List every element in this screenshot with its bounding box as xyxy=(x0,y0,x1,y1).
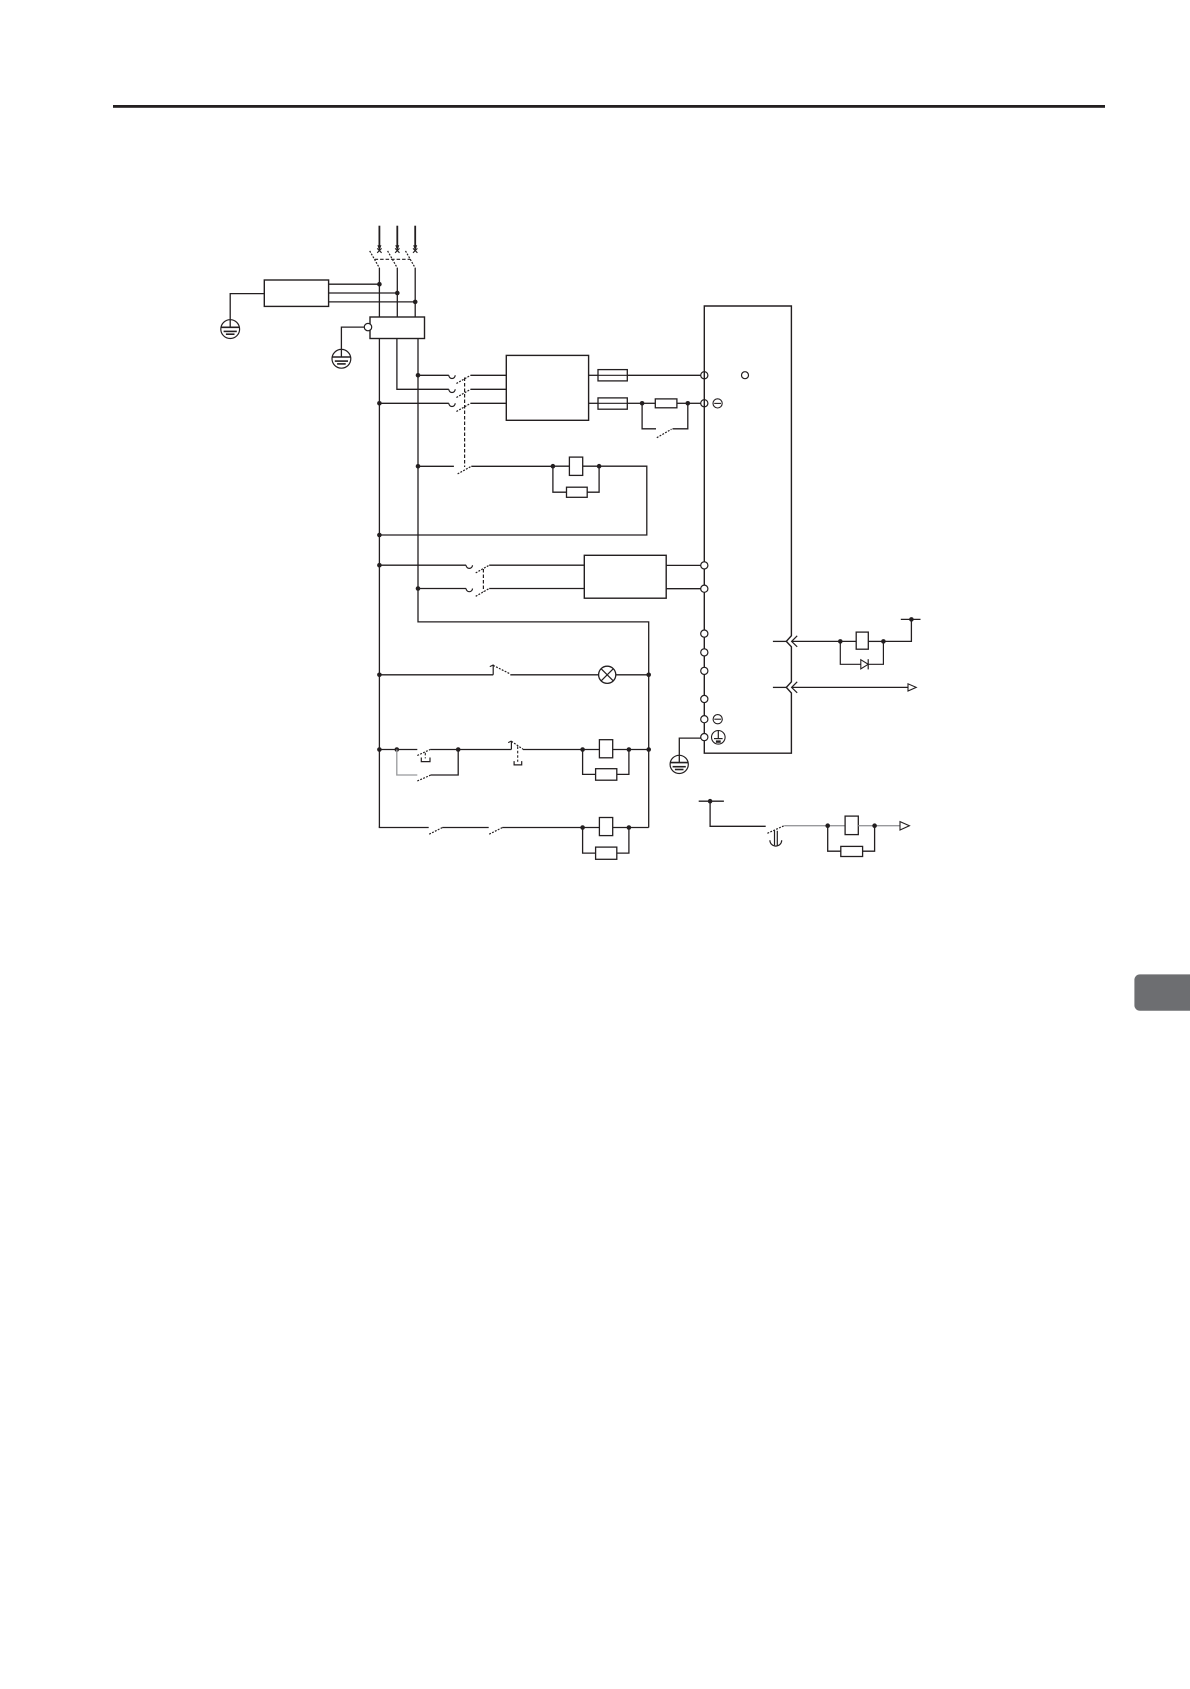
surge absorber box xyxy=(370,317,425,339)
fuse FU1 xyxy=(589,370,628,381)
relay 3Ry coil xyxy=(583,818,629,836)
NC relay contact (lamp line) xyxy=(490,665,510,675)
wire filter output S xyxy=(329,292,398,294)
node L3 brake feed xyxy=(416,586,421,591)
contactor 1KM pole 3 contact xyxy=(449,403,507,411)
wire L2 breaker to surge absorber xyxy=(396,268,398,317)
node coil2 left xyxy=(580,747,585,752)
wire FU2 to node xyxy=(627,402,642,404)
node L3-aux contact xyxy=(416,464,421,469)
ground (noise filter) xyxy=(221,320,240,339)
node regen right xyxy=(686,401,691,406)
NO contact A (rung2) xyxy=(429,828,489,835)
wire brake feed 2 xyxy=(418,588,466,590)
wire ground terminal lead xyxy=(679,738,700,762)
terminal CN pin 1 xyxy=(701,630,708,637)
open arrow (brake signal) xyxy=(900,822,909,830)
node branch right xyxy=(456,747,461,752)
flywheel diode across relay xyxy=(840,641,883,669)
wire pole1 feed xyxy=(418,374,449,376)
wire lamp to L3 line xyxy=(616,674,649,676)
wire L3 control line (right vertical, steps right) xyxy=(418,339,649,828)
terminal ground terminal xyxy=(701,734,708,741)
terminal brake 2 xyxy=(701,585,708,592)
wire filter output R xyxy=(329,283,380,285)
node coil2 right xyxy=(627,747,632,752)
noise filter box xyxy=(264,280,328,306)
surge suppressor across 1Ry coil xyxy=(553,466,599,497)
relay 2Ry coil xyxy=(583,740,629,758)
surge absorber case terminal xyxy=(364,323,371,330)
wire aux loop return xyxy=(379,466,646,535)
wire L2 stub to contactor pole 2 xyxy=(397,339,449,390)
node aux-coil right xyxy=(597,464,602,469)
node lamp-L3 xyxy=(646,673,651,678)
wire bus L1 (left vertical) xyxy=(378,339,380,828)
node filter-L1 xyxy=(377,282,382,287)
node 24V relay right xyxy=(881,639,886,644)
relay 1Ry coil xyxy=(553,457,599,475)
wire CN1 signal output xyxy=(792,686,908,688)
MCCB mechanical linkage (dashed) xyxy=(375,258,411,260)
node brake supply tap xyxy=(708,799,713,804)
node filter-L3 xyxy=(413,300,418,305)
wire surge absorber ground lead xyxy=(341,327,364,357)
contactor 1KM pole 2 contact xyxy=(449,389,507,397)
brake solenoid symbol xyxy=(770,831,782,847)
NO pushbutton (start) xyxy=(508,741,523,765)
MCCB 1QF breaker blade L1 xyxy=(370,251,380,268)
brake power supply box xyxy=(584,555,666,598)
chapter thumb tab xyxy=(1134,974,1190,1010)
minus polarity mark (CN pin 5) xyxy=(713,715,722,724)
wire brake out 2 xyxy=(666,588,701,590)
surge suppressor across brake relay xyxy=(828,826,875,857)
brake contact blade xyxy=(767,826,784,834)
protective earth mark xyxy=(712,731,726,745)
node aux-coil left xyxy=(551,464,556,469)
wire filter output T xyxy=(329,301,416,303)
contactor 1KM aux contact xyxy=(418,466,554,474)
ground (SERVOPACK) xyxy=(670,755,688,773)
wire brake supply lead xyxy=(710,801,766,826)
supply line L2 with arrow xyxy=(395,226,399,253)
open arrow (signal out) xyxy=(908,684,916,691)
node bus L1 rung feed xyxy=(377,747,382,752)
supply line L3 with arrow xyxy=(413,226,417,253)
contactor 1KM pole 1 contact xyxy=(449,375,507,383)
header rule xyxy=(113,105,1105,108)
wire to terminal B xyxy=(688,402,701,404)
node +24V tap xyxy=(909,617,914,622)
wire CN1 to 24V relay xyxy=(792,640,841,642)
power rail (brake supply) xyxy=(699,800,724,802)
wire brake to relay (grey) xyxy=(784,825,845,827)
connector CN1 inner stub 2 xyxy=(773,686,786,688)
power supply unit box xyxy=(506,355,588,420)
terminal B (SERVOPACK) xyxy=(701,400,708,407)
wire lamp feed xyxy=(379,674,493,676)
NO contact B (rung2) xyxy=(489,828,582,835)
fuse FU2 xyxy=(589,398,628,409)
minus polarity mark xyxy=(713,399,722,408)
node filter-L2 xyxy=(395,291,400,296)
wire L1 breaker to surge absorber xyxy=(378,268,380,317)
MCCB 1QF breaker blade L3 xyxy=(406,251,416,268)
wire relay to +24V rail xyxy=(883,619,911,641)
wire L3 breaker to surge absorber xyxy=(414,268,416,317)
wire filter ground lead xyxy=(230,294,264,328)
wire FU1 to terminal xyxy=(627,374,700,376)
ground (surge absorber) xyxy=(332,349,351,368)
node brake relay right xyxy=(872,823,877,828)
node 24V relay left xyxy=(838,639,843,644)
node rung1-L3 xyxy=(646,747,651,752)
2Ry holding contact branch xyxy=(397,750,458,782)
wire relay to arrow (grey) xyxy=(858,825,900,827)
connector CN1 chevron 1 xyxy=(792,636,798,647)
terminal brake 1 xyxy=(701,562,708,569)
terminal L1 (SERVOPACK) xyxy=(701,372,708,379)
brake contact 2 xyxy=(466,589,584,597)
surge suppressor across 2Ry coil xyxy=(583,750,629,781)
brake contacts linkage (dashed) xyxy=(482,569,484,592)
NC pushbutton (stop) xyxy=(417,749,430,761)
wire brake out 1 xyxy=(666,564,701,566)
SERVOPACK main box xyxy=(704,306,791,753)
wire rung2 from bus L1 xyxy=(379,827,428,828)
node brake relay left xyxy=(825,823,830,828)
resistor (regenerative) xyxy=(642,399,688,408)
wire rung1 mid xyxy=(431,749,512,751)
relay coil (holding brake relay) xyxy=(840,632,883,649)
regen bypass switch branch xyxy=(642,403,688,437)
node coil3 left xyxy=(580,825,585,830)
node L3-pole1 xyxy=(416,373,421,378)
relay coil (brake interlock) xyxy=(845,816,858,835)
connector CN1 inner stub 1 xyxy=(773,640,786,642)
terminal CN pin 4 xyxy=(701,695,708,702)
node branch left xyxy=(395,747,400,752)
MCCB 1QF breaker blade L2 xyxy=(388,251,398,268)
connector CN1 chevron 2 xyxy=(792,682,798,693)
wire rung1 right xyxy=(629,749,649,751)
wire to lamp xyxy=(510,674,598,676)
node regen left xyxy=(640,401,645,406)
terminal CN pin 2 xyxy=(701,649,708,656)
wire pole3 feed xyxy=(379,402,448,404)
node coil3 right xyxy=(627,825,632,830)
wire brake feed 1 xyxy=(379,564,466,566)
terminal CN pin 5 xyxy=(701,716,708,723)
wire rung1 left xyxy=(379,749,417,751)
surge suppressor across 3Ry coil xyxy=(583,828,629,860)
node bus L1 brake feed xyxy=(377,563,382,568)
brake contact 1 xyxy=(466,565,584,573)
supply line L1 with arrow xyxy=(377,226,381,253)
+24V power rail xyxy=(901,618,921,620)
contactor linkage (dashed) xyxy=(464,378,466,468)
node bus L1 lamp feed xyxy=(377,673,382,678)
wire rung2 right xyxy=(629,827,649,829)
marker circle inside SERVOPACK xyxy=(742,372,749,379)
pilot lamp xyxy=(599,666,616,683)
node aux return on bus L1 xyxy=(377,533,382,538)
wire rung1 to coil xyxy=(523,749,583,751)
node busL1-pole3 xyxy=(377,401,382,406)
terminal CN pin 3 xyxy=(701,667,708,674)
